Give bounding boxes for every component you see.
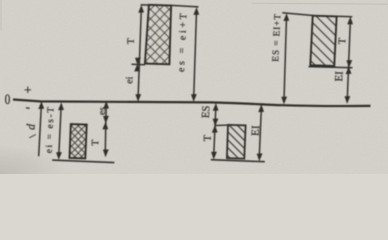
svg-text:ES = EI+T: ES = EI+T (271, 13, 283, 62)
svg-text:T: T (126, 38, 137, 45)
tolerance zone rect A (shaft, cross-hatched) (70, 124, 87, 158)
minus sign (26, 107, 30, 109)
bottom extension left of rect B (132, 63, 146, 66)
svg-text:T: T (337, 37, 348, 44)
dimension line T/EI (group D right) (347, 17, 353, 25)
zero line (13, 100, 371, 107)
top extension left of rect C (215, 124, 228, 126)
top extension left of rect B (141, 4, 149, 6)
dimension line es = ei+T (group B right) (193, 7, 199, 15)
dimension line ES = EI+T (group D left) (283, 13, 289, 21)
svg-text:+: + (24, 83, 32, 98)
svg-text:ei = es-T: ei = es-T (45, 105, 57, 153)
dimension line T/ei (group B left) (138, 5, 144, 13)
baseline extension under rect A (52, 160, 114, 163)
paper background (0, 0, 388, 174)
tolerance zone rect C (hole below line, hatched) (227, 125, 246, 159)
svg-text:ES: ES (200, 105, 213, 118)
dimension line es/T (right of rect A) (103, 101, 109, 109)
svg-text:T: T (90, 139, 101, 146)
dimension line ei=es-T arrows (58, 102, 64, 110)
faint page-top line (252, 2, 388, 5)
top extension right of rect D (337, 15, 353, 18)
top extension left of rect D (282, 13, 313, 16)
dimension line ES/T (group C left) (213, 103, 219, 111)
tick under d (29, 135, 36, 138)
bottom extension right of rect C (211, 160, 265, 162)
svg-text:ei: ei (124, 76, 135, 84)
dimension line EI (group C right) (258, 104, 264, 112)
svg-text:EI: EI (333, 71, 345, 82)
svg-text:EI: EI (250, 125, 262, 136)
svg-text:0: 0 (5, 90, 11, 107)
svg-text:T: T (202, 134, 213, 141)
svg-text:d: d (23, 123, 37, 130)
tolerance zone rect D (hole above line, hatched) (310, 16, 336, 66)
wire d stem (39, 108, 42, 156)
faint left page edge (0, 0, 2, 30)
svg-text:es: es (98, 107, 108, 116)
top extension right of rect B (171, 5, 198, 7)
tolerance zone rect B (shaft above line, cross-hatched) (145, 5, 171, 65)
dimension d arrow (38, 101, 44, 109)
wire ei stem (59, 109, 61, 153)
bottom extension under rect D (309, 67, 353, 68)
